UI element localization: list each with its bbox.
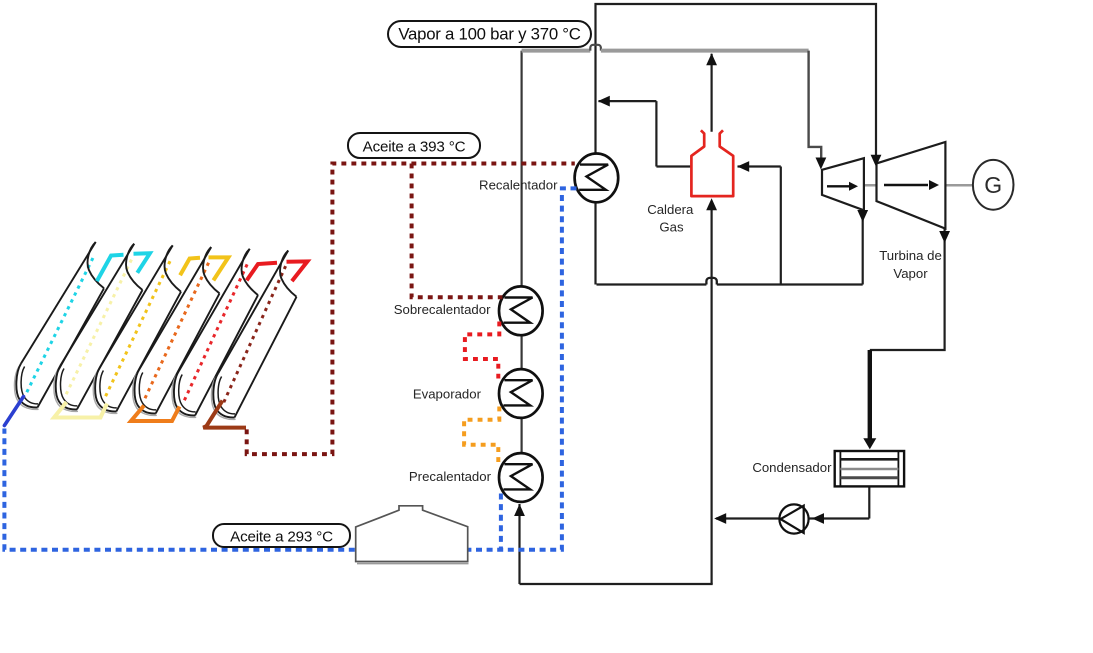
svg-text:Vapor: Vapor [893, 266, 928, 281]
svg-text:Precalentador: Precalentador [409, 469, 492, 484]
svg-text:Evaporador: Evaporador [413, 386, 482, 401]
svg-text:Caldera: Caldera [647, 202, 694, 217]
svg-text:Turbina de: Turbina de [879, 248, 942, 263]
svg-text:Condensador: Condensador [752, 460, 832, 475]
svg-text:Gas: Gas [659, 220, 684, 235]
svg-text:Aceite a 393 °C: Aceite a 393 °C [363, 139, 466, 156]
svg-text:G: G [984, 172, 1002, 198]
svg-text:Aceite a 293 °C: Aceite a 293 °C [230, 529, 333, 546]
svg-text:Sobrecalentador: Sobrecalentador [394, 302, 491, 317]
svg-text:Recalentador: Recalentador [479, 177, 558, 192]
svg-text:Vapor a 100 bar y 370 °C: Vapor a 100 bar y 370 °C [398, 25, 580, 44]
